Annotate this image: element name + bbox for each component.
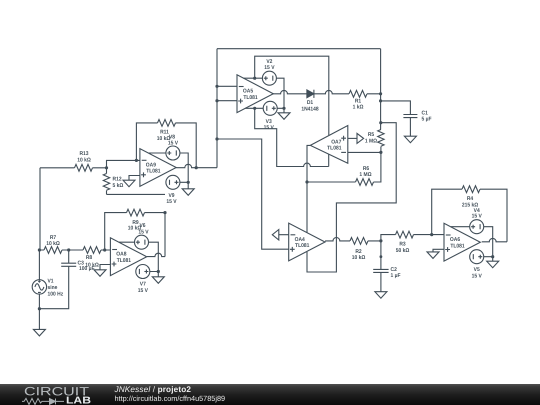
svg-text:TL081: TL081: [327, 146, 341, 152]
svg-text:OA5: OA5: [243, 89, 253, 95]
svg-text:TL081: TL081: [243, 95, 257, 101]
wire OA5 V- pin to V3: [245, 107, 263, 109]
wire R12 leads: [106, 168, 108, 195]
wire OA4 output with hop to R2: [325, 237, 381, 240]
junction node V7 right ground: [157, 270, 160, 273]
svg-text:15 V: 15 V: [472, 273, 482, 279]
wire from rail to OA4 non-inverting input: [217, 139, 289, 249]
svg-text:TL081: TL081: [146, 169, 160, 175]
resistor R9: [127, 209, 145, 216]
wire C2 leads: [380, 241, 382, 292]
wire OA5 non-inverting input stub: [217, 100, 237, 102]
svg-text:sine: sine: [48, 285, 58, 291]
junction node V1 bottom: [38, 307, 41, 310]
wire top horizontal from rail to R1 output node: [217, 48, 381, 50]
svg-text:R8: R8: [86, 255, 92, 261]
potentiometer wiper arrow at OA4 inverting input: [272, 230, 288, 241]
junction node V2 left: [253, 77, 256, 80]
svg-text:5 µF: 5 µF: [422, 117, 433, 123]
svg-text:10 kΩ: 10 kΩ: [46, 241, 60, 247]
svg-text:V1: V1: [48, 279, 54, 285]
footer logo schematic doodle resistor and diode: [22, 398, 64, 404]
wire OA8 supply connections: [119, 242, 158, 277]
svg-text:15 V: 15 V: [168, 141, 178, 147]
svg-text:15 V: 15 V: [472, 214, 482, 220]
svg-text:V5: V5: [474, 267, 480, 273]
ground at OA8 supplies: [152, 277, 164, 284]
wire OA6 supply connections: [451, 227, 493, 262]
voltage source V9: [166, 175, 180, 189]
op-amp OA4: [289, 223, 325, 261]
op-amp OA5: [237, 75, 273, 113]
junction node rail OA5 non-inverting: [215, 99, 218, 102]
junction node V3 right ground: [282, 107, 285, 110]
resistor R2: [350, 238, 368, 245]
capacitor C2: [373, 269, 388, 272]
svg-text:R4: R4: [467, 196, 474, 202]
wire OA9 supply connections: [148, 153, 188, 189]
svg-text:15 V: 15 V: [264, 65, 274, 71]
svg-text:R7: R7: [50, 235, 56, 241]
svg-text:R12: R12: [113, 177, 122, 183]
wire OA7 non-inverting input stub to wiper arrow: [348, 137, 357, 139]
junction node OA9 output: [195, 166, 198, 169]
svg-text:15 V: 15 V: [138, 288, 148, 294]
wire R7 R8 row to OA8 inverting input: [39, 249, 110, 251]
wire left rail from R13 down to R7 and V1: [39, 168, 41, 250]
wire R13 leads: [40, 167, 107, 169]
wire V1 leads and ground stem: [38, 250, 40, 329]
svg-text:JNKessel / projeto2: JNKessel / projeto2: [114, 385, 192, 394]
svg-text:50 kΩ: 50 kΩ: [396, 248, 410, 254]
svg-text:1N4148: 1N4148: [301, 106, 318, 112]
svg-text:R13: R13: [79, 151, 88, 157]
wire OA6 non-inverting input to ground: [433, 249, 444, 252]
ground at OA8 non-inverting input: [94, 270, 106, 277]
svg-text:LAB: LAB: [66, 396, 91, 405]
wire R2 right node up to R3 and on to OA6 inverting input: [381, 235, 444, 241]
junction node R7 left: [38, 248, 41, 251]
wire OA5 output with hop to D1 anode: [273, 90, 307, 93]
wire OA7 output rail down to OA4 V+ pin: [307, 145, 310, 232]
voltage source V4: [470, 220, 484, 234]
resistor R4: [462, 186, 480, 193]
wire OA6 output with hop: [482, 238, 507, 241]
svg-text:R5: R5: [368, 132, 374, 138]
resistor R8: [83, 247, 101, 254]
resistor R7: [44, 247, 62, 254]
junction node rail OA4 branch: [215, 137, 218, 140]
wire D1 cathode to R1 with hop: [314, 90, 381, 93]
junction node R1 output: [379, 92, 382, 95]
junction node OA6 inverting: [430, 233, 433, 236]
svg-text:R11: R11: [160, 130, 169, 136]
voltage source V3: [263, 101, 277, 115]
junction node C2 top: [380, 255, 383, 258]
resistor R12: [103, 174, 109, 191]
capacitor C1: [403, 115, 417, 118]
op-amp OA9: [140, 149, 176, 187]
ground at V1: [33, 329, 45, 336]
wire R11 feedback loop right side to OA9 output: [176, 123, 197, 168]
junction node V5 right ground: [491, 255, 494, 258]
svg-text:15 V: 15 V: [264, 125, 274, 131]
svg-text:R1: R1: [355, 98, 361, 104]
svg-text:C2: C2: [391, 267, 397, 273]
op-amp OA6: [444, 223, 480, 261]
svg-text:OA7: OA7: [331, 139, 341, 145]
potentiometer wiper arrow of R5: [357, 133, 364, 143]
svg-text:http://circuitlab.com/cffn4u57: http://circuitlab.com/cffn4u5785j89: [114, 394, 225, 403]
junction node R5 bottom: [379, 151, 382, 154]
voltage source V7: [136, 265, 150, 279]
wire OA9 non-inverting input to ground: [129, 176, 140, 181]
op-amp OA7: [310, 126, 348, 164]
voltage source V8: [166, 146, 180, 160]
resistor R1: [349, 90, 367, 97]
junction node R7 C3: [67, 248, 70, 251]
junction node V9 right ground: [187, 181, 190, 184]
svg-text:V6: V6: [139, 223, 145, 229]
wire OA5 V+ pin to V2 and over to OA7 V+ pin: [243, 56, 328, 135]
svg-text:1 kΩ: 1 kΩ: [353, 105, 364, 111]
svg-text:OA9: OA9: [146, 162, 156, 168]
svg-text:V7: V7: [140, 281, 146, 287]
junction node R13 R12: [105, 166, 108, 169]
resistor R6: [356, 179, 374, 186]
svg-text:10 kΩ: 10 kΩ: [85, 262, 99, 268]
resistor R13: [75, 164, 93, 171]
wire R11 feedback loop left side: [136, 123, 157, 160]
svg-text:5 kΩ: 5 kΩ: [113, 183, 124, 189]
svg-text:D1: D1: [307, 100, 313, 106]
svg-text:R3: R3: [399, 242, 405, 248]
wire R4 feedback loop: [432, 189, 507, 242]
svg-text:R6: R6: [363, 166, 369, 172]
junction node OA8 inverting: [103, 248, 106, 251]
ground at OA6 supplies: [487, 261, 499, 268]
junction node R2 right: [379, 239, 382, 242]
resistor R3: [396, 231, 414, 238]
resistor R11: [158, 120, 176, 127]
svg-text:V2: V2: [266, 59, 272, 65]
wire OA9 output with hop to rail: [176, 164, 217, 167]
junction node R11 left: [135, 159, 138, 162]
svg-text:TL081: TL081: [117, 258, 131, 264]
wire V2 V3 common to ground: [276, 78, 284, 113]
svg-text:10 kΩ: 10 kΩ: [77, 158, 91, 164]
svg-text:15 V: 15 V: [138, 229, 148, 235]
svg-text:OA6: OA6: [450, 237, 460, 243]
voltage source V2: [262, 71, 276, 85]
voltage source V6: [135, 235, 149, 249]
wire node A rail from OA9 output feeding OA5 inputs and OA4 + input: [216, 49, 218, 168]
ground at OA9 non-inverting input: [123, 180, 135, 187]
wire R5 top net around to OA4 V- pin: [307, 123, 396, 272]
svg-text:OA4: OA4: [295, 237, 306, 243]
wire R12 bottom link to OA8 feedback node: [107, 193, 166, 195]
junction node R6 OA7 output: [305, 180, 308, 183]
svg-text:TL081: TL081: [450, 243, 464, 249]
op-amp OA8: [110, 238, 146, 276]
wire C3 leads and bottom return: [39, 250, 68, 309]
junction node V3 left: [253, 107, 256, 110]
svg-text:100 Hz: 100 Hz: [48, 292, 64, 298]
wire OA9 inverting input net from R13 R12 junction: [107, 160, 140, 167]
resistor R5: [378, 130, 384, 147]
voltage source V5: [470, 250, 484, 264]
wire OA8 output with hop: [147, 253, 165, 256]
svg-text:1 MΩ: 1 MΩ: [359, 172, 372, 178]
ground at C1: [404, 136, 416, 143]
svg-text:TL081: TL081: [295, 243, 309, 249]
ground at OA5 supplies: [278, 113, 290, 120]
svg-text:15 V: 15 V: [166, 199, 176, 205]
ground at OA6 non-inverting input: [427, 252, 439, 259]
junction node R9 right: [163, 211, 166, 214]
wire V3 negative supply net to OA7 V- pin with hop: [255, 108, 329, 166]
footer CircuitLab logo wordmark: [22, 384, 225, 405]
svg-text:V8: V8: [169, 135, 175, 141]
svg-text:1 µF: 1 µF: [391, 273, 402, 279]
junction node rail OA5 inverting: [215, 85, 218, 88]
svg-text:OA8: OA8: [116, 252, 126, 258]
junction node R5 top: [379, 121, 382, 124]
ground at OA9 supplies: [182, 189, 194, 196]
diode D1: [307, 90, 314, 98]
svg-text:1 MΩ: 1 MΩ: [365, 139, 378, 145]
svg-text:R2: R2: [355, 249, 361, 255]
wire OA8 feedback loop with R9: [105, 213, 165, 257]
wire C1 tap and leads: [381, 101, 411, 136]
wire right vertical rail through R1 node C1 tap and R5: [374, 49, 381, 182]
wire R6 left lead to OA7 output rail: [307, 181, 356, 183]
junction node C1 tap: [379, 99, 382, 102]
svg-text:10 kΩ: 10 kΩ: [352, 255, 366, 261]
wire OA8 non-inverting input to ground: [100, 265, 110, 270]
footer bar: [0, 384, 540, 405]
wire OA7 inverting input stub to R5 bottom: [348, 151, 381, 153]
voltage source V1 sine: [32, 280, 46, 294]
ground at C2: [375, 292, 387, 299]
wire OA5 inverting input stub: [217, 85, 237, 87]
capacitor C3: [61, 263, 76, 266]
